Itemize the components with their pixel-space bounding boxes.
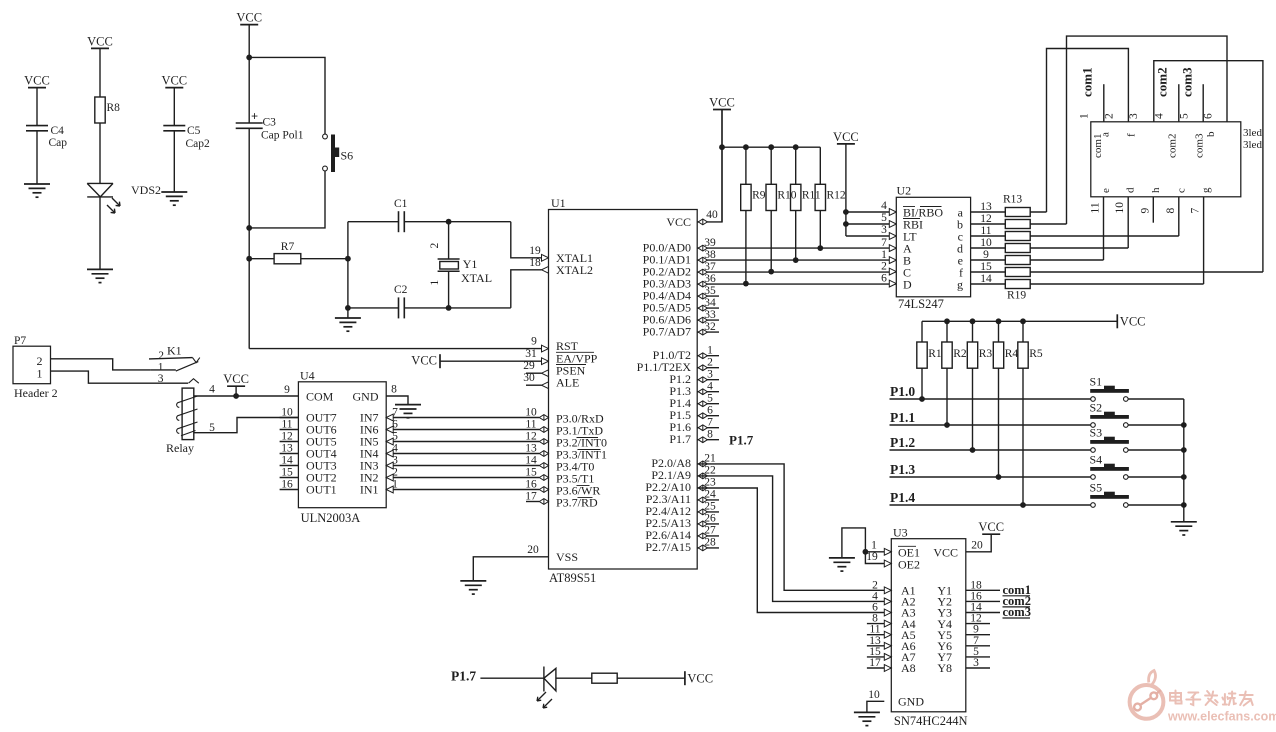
wire bbox=[301, 258, 348, 260]
node rail junction bbox=[1181, 502, 1187, 508]
resistor R15 bbox=[1005, 232, 1030, 241]
pin 18 XTAL2 bbox=[529, 257, 548, 273]
svg-text:C1: C1 bbox=[394, 198, 408, 210]
wire bbox=[248, 25, 250, 123]
pin 12 bbox=[525, 430, 548, 444]
pin 5 label bbox=[973, 646, 979, 658]
svg-text:9: 9 bbox=[284, 384, 290, 396]
wire bbox=[386, 441, 539, 443]
wire bbox=[556, 677, 592, 679]
node OE junction bbox=[863, 549, 869, 555]
svg-text:R11: R11 bbox=[802, 190, 821, 202]
power VCC (U2) bbox=[833, 130, 859, 144]
svg-text:9: 9 bbox=[1139, 208, 1151, 214]
pin 40 bbox=[698, 209, 718, 225]
svg-text:Cap: Cap bbox=[49, 137, 68, 149]
svg-text:1: 1 bbox=[429, 280, 441, 286]
svg-text:g: g bbox=[957, 277, 963, 291]
svg-text:g: g bbox=[1200, 187, 1212, 193]
svg-text:VCC: VCC bbox=[1120, 315, 1146, 329]
wire bbox=[448, 222, 450, 259]
wire bbox=[865, 551, 884, 553]
pin 15 bbox=[525, 466, 548, 480]
wire bbox=[249, 57, 325, 134]
svg-text:+: + bbox=[251, 110, 258, 124]
wire bbox=[1030, 211, 1046, 213]
svg-text:d: d bbox=[1125, 187, 1137, 193]
svg-text:c: c bbox=[1175, 188, 1187, 193]
svg-text:Header 2: Header 2 bbox=[14, 386, 58, 400]
pin 3 stub bbox=[697, 379, 719, 381]
ground bbox=[161, 192, 187, 205]
svg-text:4: 4 bbox=[209, 384, 215, 396]
wire bbox=[745, 211, 747, 284]
wire bbox=[1178, 197, 1180, 236]
connector P7 Header 2 bbox=[13, 335, 58, 400]
pin 35 stub bbox=[697, 295, 719, 297]
svg-text:C2: C2 bbox=[394, 284, 408, 296]
wire bbox=[721, 110, 723, 148]
pin 13 label bbox=[869, 635, 891, 649]
svg-text:U4: U4 bbox=[300, 369, 315, 383]
wire bbox=[946, 321, 948, 342]
pin 3 label bbox=[881, 224, 896, 240]
svg-text:29: 29 bbox=[523, 360, 535, 372]
pin 4 label bbox=[881, 200, 896, 216]
wire bbox=[971, 211, 1006, 213]
wire bbox=[386, 396, 408, 405]
power VCC (P1.7) bbox=[685, 671, 713, 685]
wire bbox=[1183, 399, 1185, 522]
svg-text:b: b bbox=[1205, 131, 1217, 137]
wire bbox=[1128, 398, 1184, 400]
svg-text:S3: S3 bbox=[1090, 426, 1103, 440]
ground bbox=[87, 269, 113, 282]
wire bbox=[845, 144, 847, 236]
svg-text:R3: R3 bbox=[979, 348, 993, 360]
pin 3 bbox=[698, 369, 713, 383]
pin 5 stub bbox=[697, 403, 719, 405]
pin 8 bbox=[698, 429, 753, 448]
node C3 top junction bbox=[246, 55, 252, 61]
resistor R (P1.7) bbox=[592, 673, 617, 683]
label R11 bbox=[802, 190, 821, 202]
node rail junction bbox=[1181, 474, 1187, 480]
node bbox=[970, 447, 976, 453]
svg-text:3led: 3led bbox=[1243, 127, 1262, 139]
wire bbox=[348, 307, 399, 309]
svg-text:R1: R1 bbox=[928, 348, 942, 360]
node bbox=[768, 269, 774, 275]
wire P0 row pin 37 bbox=[697, 271, 896, 273]
node pin5 junction bbox=[843, 221, 849, 227]
pin 2 label bbox=[881, 260, 896, 275]
svg-text:GND: GND bbox=[898, 695, 924, 709]
pin 3 label bbox=[973, 657, 979, 669]
svg-text:18: 18 bbox=[529, 257, 541, 269]
svg-text:VSS: VSS bbox=[556, 550, 578, 564]
pin 2 bbox=[698, 357, 713, 371]
wire bbox=[770, 211, 772, 272]
svg-text:1: 1 bbox=[707, 345, 713, 357]
wire bbox=[890, 476, 1091, 478]
svg-text:com3: com3 bbox=[1180, 67, 1195, 97]
resistor R10 bbox=[766, 184, 776, 210]
svg-text:17: 17 bbox=[525, 490, 537, 502]
wire bbox=[249, 258, 274, 260]
net com1 bbox=[1003, 583, 1031, 597]
pin 3 label bbox=[386, 455, 398, 469]
pin 17 stub bbox=[526, 501, 539, 503]
pin 33 stub bbox=[697, 319, 719, 321]
svg-text:GND: GND bbox=[353, 390, 379, 404]
resistor R8 bbox=[95, 97, 120, 123]
label R3 bbox=[979, 348, 993, 360]
wire P0 row pin 39 bbox=[697, 247, 896, 249]
watermark logo elecfans bbox=[1130, 671, 1276, 724]
wire bbox=[386, 489, 539, 491]
svg-text:P1.7: P1.7 bbox=[729, 433, 754, 448]
svg-text:R8: R8 bbox=[107, 102, 121, 114]
node crystal bottom bbox=[446, 305, 452, 311]
svg-text:11: 11 bbox=[281, 419, 292, 431]
wire bbox=[386, 417, 539, 419]
wire bbox=[1030, 235, 1179, 237]
svg-text:VCC: VCC bbox=[87, 34, 113, 48]
node rail junction bbox=[768, 144, 774, 150]
net com3 bbox=[1180, 67, 1204, 122]
pin 9 label bbox=[973, 624, 979, 636]
svg-text:19: 19 bbox=[529, 245, 541, 257]
resistor R1 bbox=[917, 342, 927, 368]
node rail junction bbox=[944, 318, 950, 324]
svg-text:R12: R12 bbox=[827, 190, 846, 202]
pin 15 stub bbox=[280, 467, 299, 479]
svg-text:U3: U3 bbox=[893, 526, 908, 540]
pin 27 bbox=[698, 525, 716, 539]
pin 26 stub bbox=[697, 523, 719, 525]
wire bbox=[173, 131, 175, 192]
svg-text:6: 6 bbox=[881, 272, 887, 284]
wire pin9 stub bbox=[1152, 197, 1154, 223]
wire bbox=[480, 677, 544, 679]
wire bbox=[946, 368, 948, 425]
pin 7 bbox=[698, 417, 713, 431]
label R12 bbox=[827, 190, 846, 202]
svg-text:16: 16 bbox=[281, 479, 293, 491]
pin 1 label bbox=[871, 539, 891, 555]
node bbox=[743, 281, 749, 287]
svg-text:P1.4: P1.4 bbox=[890, 490, 915, 505]
pin 7 label bbox=[386, 407, 398, 421]
pin 28 bbox=[698, 537, 716, 551]
pin 8 stub bbox=[697, 439, 719, 441]
svg-text:C5: C5 bbox=[187, 125, 201, 137]
pin 21 bbox=[698, 453, 716, 467]
wire bbox=[235, 386, 237, 396]
svg-text:4: 4 bbox=[881, 200, 887, 212]
svg-text:11: 11 bbox=[980, 225, 991, 237]
pin 16 bbox=[525, 478, 548, 492]
wire bbox=[511, 222, 542, 258]
svg-text:14: 14 bbox=[525, 454, 537, 466]
pin 2 label bbox=[386, 467, 398, 481]
svg-text:S1: S1 bbox=[1090, 375, 1103, 389]
wire bbox=[890, 449, 1091, 451]
relay K1 coil bbox=[166, 388, 198, 455]
label R9 bbox=[752, 190, 766, 202]
net P1.3 label bbox=[890, 462, 915, 477]
wire bbox=[99, 123, 101, 183]
svg-text:3: 3 bbox=[158, 373, 164, 385]
svg-text:2: 2 bbox=[429, 243, 441, 249]
pin 16 stub bbox=[280, 479, 299, 491]
wire bbox=[819, 211, 821, 249]
wire bbox=[348, 221, 399, 223]
svg-text:OE2: OE2 bbox=[898, 557, 920, 571]
svg-text:XTAL: XTAL bbox=[461, 271, 492, 285]
svg-text:P1.1: P1.1 bbox=[890, 410, 915, 425]
svg-text:h: h bbox=[1150, 187, 1162, 193]
svg-text:R2: R2 bbox=[953, 348, 967, 360]
svg-text:10: 10 bbox=[868, 689, 880, 701]
svg-text:5: 5 bbox=[707, 393, 713, 405]
svg-text:13: 13 bbox=[281, 443, 293, 455]
svg-text:13: 13 bbox=[980, 201, 992, 213]
pin 25 stub bbox=[697, 511, 719, 513]
ground bbox=[1171, 522, 1197, 535]
svg-text:R19: R19 bbox=[1007, 290, 1026, 302]
node crystal-left R7 tee bbox=[345, 256, 351, 262]
svg-text:S4: S4 bbox=[1090, 453, 1103, 467]
svg-text:P0.7/AD7: P0.7/AD7 bbox=[643, 324, 691, 338]
wire bbox=[194, 395, 299, 397]
svg-text:4: 4 bbox=[707, 381, 713, 393]
net com1 bbox=[1080, 67, 1104, 121]
pin 32 bbox=[698, 321, 716, 335]
svg-text:12: 12 bbox=[281, 431, 293, 443]
wire bbox=[1128, 424, 1184, 426]
wire bbox=[971, 247, 1006, 249]
pin 31 EA/VPP bbox=[525, 348, 548, 364]
label R5 bbox=[1029, 348, 1043, 360]
label R19 bbox=[1007, 290, 1026, 302]
pin 7 stub bbox=[697, 427, 719, 429]
wire bbox=[966, 600, 1000, 602]
net P1.0 label bbox=[890, 384, 915, 399]
wire bbox=[36, 131, 38, 184]
resistor R18 bbox=[1005, 268, 1030, 277]
svg-text:9: 9 bbox=[983, 249, 989, 261]
node bbox=[817, 245, 823, 251]
crystal Y1 bbox=[429, 243, 492, 286]
svg-text:f: f bbox=[1126, 133, 1138, 137]
wire bbox=[865, 552, 884, 564]
pin 26 bbox=[698, 513, 716, 527]
wire bbox=[1127, 197, 1129, 248]
svg-text:4: 4 bbox=[1153, 113, 1165, 119]
pin 4 bbox=[698, 381, 713, 395]
svg-text:10: 10 bbox=[1114, 202, 1126, 214]
svg-text:OUT1: OUT1 bbox=[306, 483, 337, 497]
svg-text:P1.2: P1.2 bbox=[890, 435, 915, 450]
svg-text:com3: com3 bbox=[1003, 605, 1031, 619]
pin 14 label bbox=[980, 273, 992, 285]
wire bbox=[1022, 321, 1024, 342]
svg-text:2: 2 bbox=[1103, 113, 1115, 119]
pin 12 label bbox=[980, 213, 992, 225]
wire bbox=[846, 235, 889, 237]
svg-text:COM: COM bbox=[306, 390, 334, 404]
wire bbox=[966, 634, 990, 636]
power VCC (C5 branch) bbox=[161, 74, 187, 88]
LED D1 bbox=[537, 667, 556, 709]
wire bbox=[194, 418, 299, 433]
pin 4 stub bbox=[697, 391, 719, 393]
svg-text:IN1: IN1 bbox=[360, 483, 379, 497]
svg-text:VCC: VCC bbox=[833, 130, 859, 144]
power VCC (C3 branch) bbox=[236, 11, 262, 25]
svg-text:10: 10 bbox=[525, 406, 537, 418]
svg-text:e: e bbox=[1100, 188, 1112, 193]
pin 2 label bbox=[872, 579, 891, 593]
svg-text:5: 5 bbox=[881, 212, 887, 224]
wire bbox=[99, 48, 101, 97]
svg-text:com3: com3 bbox=[1194, 133, 1206, 158]
svg-text:VCC: VCC bbox=[933, 545, 958, 559]
svg-text:VCC: VCC bbox=[223, 372, 249, 386]
pin 10 label bbox=[980, 237, 992, 249]
svg-text:R5: R5 bbox=[1029, 348, 1043, 360]
resistor R14 bbox=[1005, 220, 1030, 229]
capacitor C5 bbox=[163, 125, 210, 150]
pin 1 label bbox=[881, 249, 896, 264]
net com3 bbox=[1003, 605, 1031, 619]
svg-text:S5: S5 bbox=[1090, 481, 1103, 495]
pin A5 stub bbox=[867, 634, 884, 636]
label R10 bbox=[777, 190, 796, 202]
power VCC (pin 40) bbox=[709, 96, 735, 110]
pin 18 label bbox=[970, 579, 982, 591]
switch S5 bbox=[1090, 481, 1129, 508]
wire bbox=[440, 360, 542, 362]
wire bbox=[1030, 223, 1066, 225]
label R1 bbox=[928, 348, 942, 360]
pin 9 label bbox=[983, 249, 989, 261]
pin 34 bbox=[698, 297, 716, 311]
wire bbox=[386, 477, 539, 479]
svg-text:VCC: VCC bbox=[24, 74, 50, 88]
resistor R3 bbox=[967, 342, 977, 368]
svg-text:3: 3 bbox=[881, 224, 887, 236]
wire bbox=[1203, 197, 1205, 284]
pin 14 bbox=[525, 454, 548, 468]
svg-text:Relay: Relay bbox=[166, 441, 194, 455]
display 3led body bbox=[1079, 113, 1263, 214]
svg-text:SN74HC244N: SN74HC244N bbox=[894, 714, 968, 728]
svg-text:VCC: VCC bbox=[978, 520, 1004, 534]
svg-text:1: 1 bbox=[1079, 113, 1091, 119]
wire bbox=[617, 677, 685, 679]
svg-text:5: 5 bbox=[209, 422, 215, 434]
node bbox=[919, 396, 925, 402]
svg-text:a: a bbox=[1100, 132, 1112, 137]
wire bbox=[972, 321, 974, 342]
svg-text:8: 8 bbox=[707, 429, 713, 441]
wire bbox=[971, 283, 1006, 285]
wire bbox=[473, 557, 548, 581]
wire bbox=[867, 701, 884, 712]
power VCC (R8 branch) bbox=[87, 34, 113, 48]
svg-text:16: 16 bbox=[525, 478, 537, 490]
svg-text:K1: K1 bbox=[167, 344, 182, 358]
pin 13 stub bbox=[280, 443, 299, 455]
wire bbox=[511, 270, 542, 308]
pin 8 label bbox=[391, 384, 397, 396]
wire bbox=[404, 221, 511, 223]
wire bbox=[890, 424, 1091, 426]
op-amp U1 AT89S51 body bbox=[549, 196, 698, 585]
resistor R12 bbox=[815, 184, 825, 210]
wire bbox=[404, 307, 511, 309]
resistor R11 bbox=[791, 184, 801, 210]
svg-text:ULN2003A: ULN2003A bbox=[301, 511, 361, 525]
wire bbox=[966, 645, 990, 647]
pin 37 bbox=[698, 261, 716, 275]
resistor R9 bbox=[741, 184, 751, 210]
svg-text:A8: A8 bbox=[901, 661, 916, 675]
wire bbox=[386, 465, 539, 467]
switch S6 bbox=[323, 134, 354, 172]
svg-text:Y1: Y1 bbox=[463, 257, 478, 271]
svg-text:www.elecfans.com: www.elecfans.com bbox=[1167, 710, 1276, 724]
pin 12 stub bbox=[280, 431, 299, 443]
svg-text:7: 7 bbox=[1190, 208, 1202, 214]
pin 9 label bbox=[284, 384, 290, 396]
power VCC (C4 branch) bbox=[24, 74, 50, 88]
pin 4 label bbox=[209, 384, 215, 396]
svg-text:31: 31 bbox=[525, 348, 537, 360]
wire bbox=[846, 211, 889, 213]
wire bbox=[819, 147, 821, 184]
svg-text:1: 1 bbox=[871, 539, 877, 551]
svg-text:20: 20 bbox=[971, 539, 983, 551]
wire bbox=[697, 488, 884, 613]
pin 24 bbox=[698, 489, 716, 503]
pin 36 bbox=[698, 273, 716, 287]
svg-text:10: 10 bbox=[980, 237, 992, 249]
svg-text:3: 3 bbox=[973, 657, 979, 669]
svg-text:1: 1 bbox=[37, 367, 43, 381]
node S6 return junction bbox=[246, 225, 252, 231]
pin 20 label bbox=[971, 539, 983, 551]
wire bbox=[1154, 61, 1263, 272]
wire bbox=[386, 429, 539, 431]
ground bbox=[335, 318, 361, 331]
svg-text:7: 7 bbox=[707, 417, 713, 429]
pin 14 label bbox=[970, 602, 982, 614]
ground bbox=[460, 581, 486, 594]
svg-text:com2: com2 bbox=[1167, 134, 1179, 158]
wire bbox=[921, 321, 923, 342]
svg-text:C3: C3 bbox=[263, 117, 277, 129]
svg-text:9: 9 bbox=[531, 336, 537, 348]
pin 39 bbox=[698, 237, 716, 251]
wire bbox=[1022, 368, 1024, 505]
svg-text:D: D bbox=[903, 277, 912, 291]
svg-text:6: 6 bbox=[707, 405, 713, 417]
svg-text:8: 8 bbox=[1165, 208, 1177, 214]
